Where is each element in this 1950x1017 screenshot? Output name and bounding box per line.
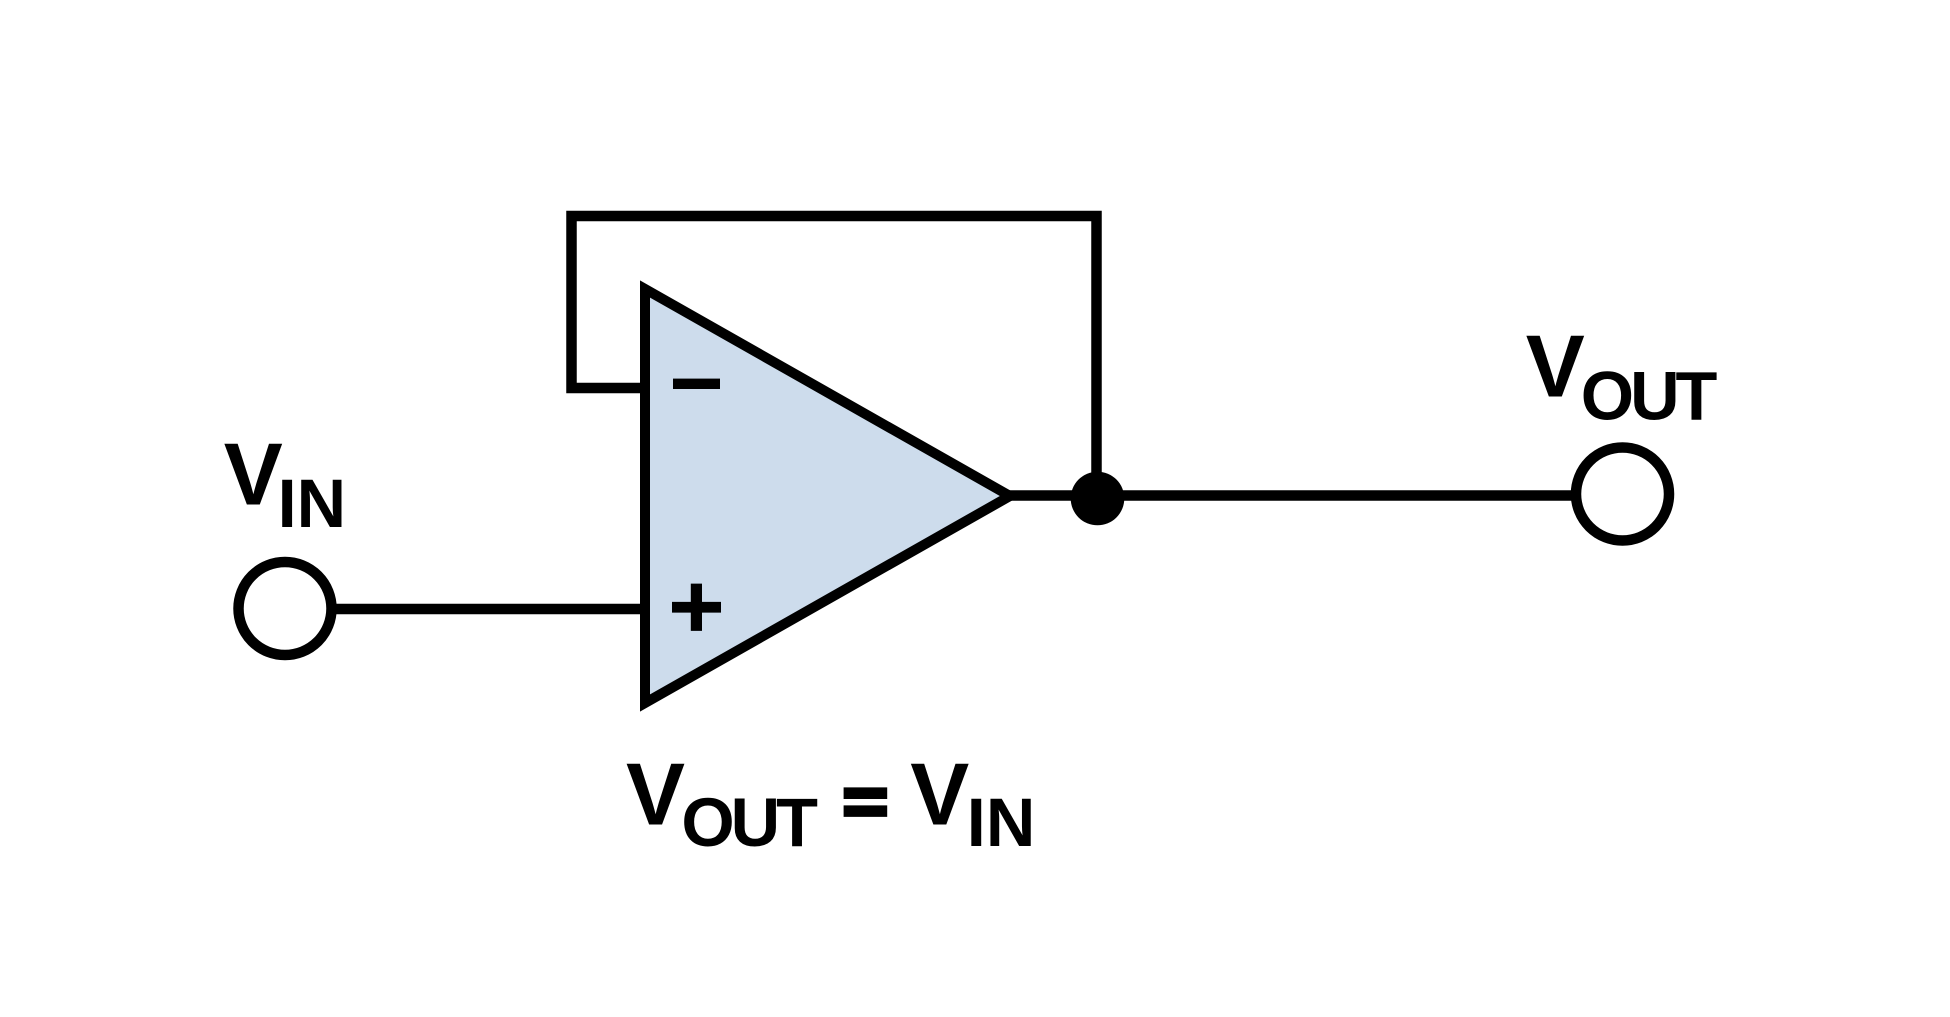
terminal VIN (input circle) — [239, 562, 332, 655]
op-amp plus sign (non-inverting input) — [672, 584, 721, 631]
svg-text:V: V — [224, 425, 283, 524]
equals sign — [844, 787, 888, 817]
svg-text:OUT: OUT — [681, 784, 818, 861]
svg-text:OUT: OUT — [1581, 358, 1718, 435]
svg-text:V: V — [626, 745, 685, 844]
wire: output wire from op-amp to VOUT terminal — [1008, 490, 1572, 501]
terminal VOUT (output circle) — [1576, 448, 1669, 541]
op-amp minus sign (inverting input) — [673, 379, 720, 389]
svg-text:V: V — [1526, 317, 1585, 416]
svg-text:IN: IN — [967, 784, 1036, 861]
node: output junction dot — [1071, 472, 1125, 526]
svg-text:V: V — [910, 745, 969, 844]
svg-text:IN: IN — [278, 465, 347, 542]
wire: feedback loop from inverting input up over op-amp to output node — [572, 216, 1097, 496]
op-amp U1 (triangle) — [645, 289, 1010, 703]
wire: non-inverting input wire from VIN terminal to op-amp — [331, 604, 650, 615]
